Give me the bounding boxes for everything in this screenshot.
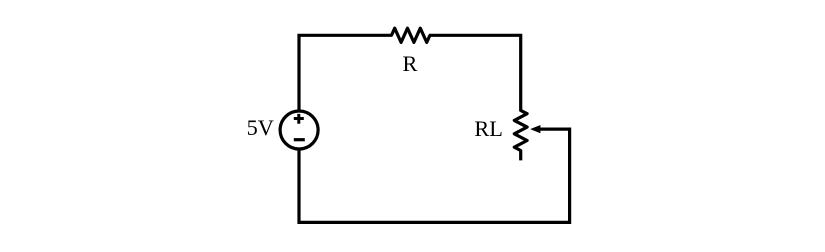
wire: source bottom lead, bottom wire, up right side to wiper arrow — [299, 129, 570, 222]
voltage source V1 circle — [280, 111, 318, 149]
svg-text:5V: 5V — [247, 115, 274, 140]
wiper arrow head pointing left at RL — [530, 125, 540, 133]
plus sign inside source — [294, 114, 304, 124]
svg-text:RL: RL — [474, 116, 503, 141]
potentiometer RL zigzag (vertical) with open bottom lead — [514, 110, 527, 160]
wire: top wire from resistor R to top-right corner, down to RL top — [429, 35, 521, 111]
resistor R zigzag — [392, 28, 430, 42]
svg-text:R: R — [402, 51, 417, 76]
wire: source top lead, up left side, top wire to resistor R — [299, 35, 393, 111]
minus sign inside source — [294, 138, 305, 141]
